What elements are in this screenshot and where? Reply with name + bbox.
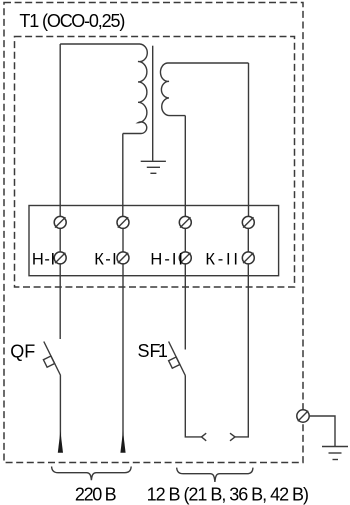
wire below terminal col3 to SF1 bbox=[184, 264, 186, 350]
brace under 12V bbox=[177, 468, 253, 482]
terminal circle col2 top bbox=[117, 216, 129, 228]
arrow terminal 220V left bbox=[58, 431, 63, 453]
terminal circle col2 bottom bbox=[117, 252, 129, 264]
connector fork col3 bbox=[202, 433, 207, 441]
wire below terminal col1 to QF bbox=[59, 264, 61, 339]
wire below QF down to arrow bbox=[59, 376, 61, 453]
terminal circle col4 top bbox=[242, 216, 254, 228]
terminal circle col1 top bbox=[54, 216, 66, 228]
transformer core bbox=[152, 46, 154, 161]
wire below terminal col2 down to arrow bbox=[122, 264, 124, 452]
wire between terminal circles col2 bbox=[122, 229, 124, 252]
wire column 4 from secondary top lead down to terminal bbox=[248, 63, 250, 216]
terminal block rectangle bbox=[29, 206, 279, 276]
circuit breaker SF1 box bbox=[169, 357, 180, 368]
svg-text:T1 (ОСО-0,25): T1 (ОСО-0,25) bbox=[19, 11, 125, 31]
outer dashed boundary box bbox=[4, 3, 303, 463]
svg-text:220 В: 220 В bbox=[75, 485, 117, 505]
ground symbol under core bbox=[141, 161, 166, 173]
terminal circle col3 bottom bbox=[179, 252, 191, 264]
wire between terminal circles col3 bbox=[184, 229, 186, 252]
svg-text:Н-II: Н-II bbox=[150, 250, 183, 268]
arrow terminal 220V right bbox=[120, 431, 125, 453]
circuit breaker QF box bbox=[43, 356, 54, 367]
connector fork col4 bbox=[230, 433, 235, 441]
terminal circle col3 top bbox=[179, 216, 191, 228]
circuit breaker SF1 blade bbox=[169, 342, 186, 376]
transformer T1 primary winding bbox=[60, 44, 147, 134]
wire between terminal circles col1 bbox=[59, 229, 61, 252]
brace under 220V bbox=[52, 467, 132, 481]
wire column 2 from primary bottom down to terminal bbox=[122, 134, 124, 217]
svg-text:К-I: К-I bbox=[94, 250, 117, 268]
wire between terminal circles col4 bbox=[247, 229, 249, 252]
wire below SF1 to connector bbox=[185, 376, 201, 437]
wire below terminal col4 down to connector bbox=[235, 264, 248, 437]
wire column 3 from secondary bottom down to terminal bbox=[184, 116, 186, 217]
wire column 1 from primary lead down to terminal bbox=[59, 44, 61, 216]
circuit breaker QF blade bbox=[44, 342, 61, 376]
svg-text:Н-I: Н-I bbox=[32, 250, 55, 268]
transformer T1 secondary winding bbox=[160, 63, 248, 116]
terminal circle col4 bottom bbox=[242, 252, 254, 264]
terminal circle col1 bottom bbox=[54, 252, 66, 264]
svg-text:К-II: К-II bbox=[205, 250, 238, 268]
svg-text:SF1: SF1 bbox=[138, 341, 168, 361]
svg-text:QF: QF bbox=[10, 342, 35, 362]
dashed box around transformer assembly T1 bbox=[15, 37, 295, 288]
svg-text:12 В (21 В, 36 В, 42 В): 12 В (21 В, 36 В, 42 В) bbox=[147, 485, 309, 505]
earth terminal circle right side bbox=[297, 410, 309, 422]
ground symbol bottom right bbox=[322, 447, 348, 460]
wire from earth terminal to ground bbox=[309, 416, 335, 446]
